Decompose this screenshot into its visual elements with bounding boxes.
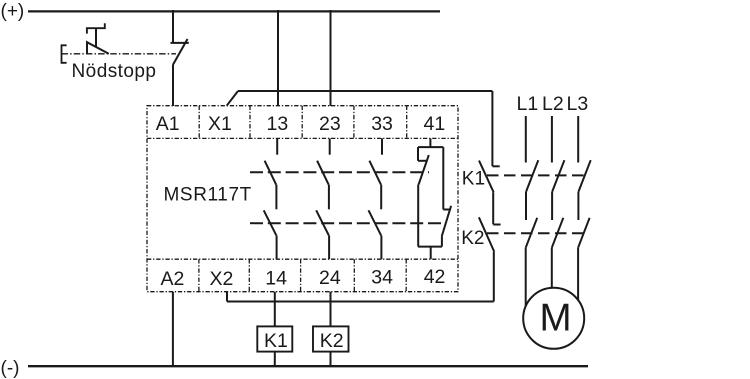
- wire contact to terminal 14: [276, 236, 278, 260]
- svg-text:X1: X1: [208, 113, 232, 135]
- wire between 23-24 contacts: [328, 185, 330, 210]
- wire terminal 14 to coil K1: [274, 292, 276, 327]
- wire between aux contacts: [492, 192, 494, 224]
- relay contact 23-24 lower NO: [316, 210, 329, 235]
- svg-text:L3: L3: [567, 93, 589, 115]
- relay contact 23-24 upper NO: [317, 138, 330, 184]
- wire (-) bottom supply rail: [28, 365, 588, 367]
- svg-text:K1: K1: [264, 330, 288, 352]
- relay contact 33-34 upper NO: [369, 138, 382, 184]
- svg-text:A2: A2: [161, 268, 185, 290]
- mechanical linkage row 2 (dashed): [250, 222, 443, 224]
- NC branch bottom bar: [418, 246, 442, 248]
- wire coil K1 to (-) rail: [274, 352, 276, 367]
- svg-text:(+): (+): [1, 1, 25, 22]
- svg-text:L1: L1: [517, 93, 539, 115]
- wire between 13-14 contacts: [275, 185, 277, 210]
- svg-text:L2: L2: [542, 93, 564, 115]
- terminal strip top row divider: [147, 137, 458, 139]
- contactor K1 main contact L2: [552, 160, 564, 192]
- wire terminal 24 to coil K2: [330, 292, 332, 327]
- relay contact 13-14 lower NO: [264, 210, 277, 235]
- wire feedback loop right vertical upper: [491, 91, 493, 166]
- svg-text:41: 41: [424, 113, 446, 135]
- wire NC lower lever to bottom bar: [441, 236, 443, 246]
- emergency stop actuator bracket: [62, 45, 67, 63]
- contactor K1 auxiliary NC contact: [479, 161, 500, 193]
- svg-text:Nödstopp: Nödstopp: [72, 61, 157, 82]
- svg-text:13: 13: [267, 113, 289, 135]
- wire X1 to feedback loop (diagonal): [227, 91, 238, 106]
- svg-text:33: 33: [371, 113, 393, 135]
- contactor coil K1: [257, 326, 292, 351]
- wire phase L2 to motor: [551, 248, 553, 289]
- wire contact to terminal 24: [328, 236, 330, 260]
- wire terminal A2 to (-) rail: [172, 292, 174, 367]
- contactor K2 main contact L1: [526, 218, 538, 248]
- wire feedback loop right vertical lower: [493, 252, 495, 302]
- svg-text:K2: K2: [320, 330, 344, 352]
- emergency stop NC contact S1: [171, 10, 189, 65]
- svg-text:K1: K1: [462, 168, 485, 189]
- svg-text:14: 14: [265, 268, 287, 290]
- wire (+) top supply rail: [28, 10, 440, 12]
- wire contact to terminal 34: [380, 236, 382, 260]
- wire phase L3 upper: [577, 116, 579, 163]
- wire terminal 41 to NC branch: [429, 138, 431, 147]
- relay contact 33-34 lower NO: [369, 210, 382, 235]
- contactor K1 main contact L3: [578, 160, 590, 192]
- wire from emergency stop contact to A1: [172, 65, 174, 106]
- wire feedback loop top horizontal: [238, 90, 492, 92]
- relay contact 13-14 upper NO: [265, 138, 278, 184]
- wire phase L3 to motor: [577, 248, 579, 301]
- wire phase L3 middle: [577, 192, 579, 220]
- svg-text:42: 42: [424, 266, 446, 288]
- contactor K2 main contact L2: [552, 218, 564, 248]
- contactor K2 main contact L3: [578, 218, 590, 248]
- NC branch top bar: [418, 146, 443, 148]
- svg-text:A1: A1: [156, 113, 180, 135]
- wire phase L2 middle: [551, 192, 553, 220]
- contactor K2 auxiliary NC contact: [479, 217, 501, 251]
- wire coil K2 to (-) rail: [330, 352, 332, 367]
- wire phase L1 to motor: [525, 248, 527, 306]
- svg-text:K2: K2: [461, 228, 484, 249]
- wire between 33-34 contacts: [380, 185, 382, 210]
- wire NC right branch: [442, 147, 444, 209]
- wire phase L1 upper: [525, 116, 527, 163]
- relay NC contact 41-42 upper: [418, 147, 429, 184]
- relay NC contact 41-42 lower: [442, 206, 451, 236]
- wire from (+) rail down to terminal 23: [330, 10, 332, 106]
- wire from (+) rail down to terminal 13: [277, 10, 279, 106]
- wire feedback loop bottom horizontal: [227, 301, 494, 303]
- mechanical linkage K1 row (dashed): [487, 174, 586, 176]
- contactor coil K2: [313, 326, 349, 351]
- svg-text:X2: X2: [210, 268, 234, 290]
- mechanical linkage K2 row (dashed): [487, 232, 586, 234]
- safety relay U1 MSR117T outline (dashed): [147, 106, 458, 292]
- mechanical linkage row 1 (dashed): [250, 171, 429, 173]
- wire NC left branch: [417, 185, 419, 247]
- wire X2 to feedback loop: [226, 292, 228, 302]
- terminal strip bottom row divider: [147, 258, 458, 260]
- svg-text:M: M: [539, 297, 571, 340]
- contactor K1 main contact L1: [526, 160, 538, 192]
- svg-text:23: 23: [319, 113, 341, 135]
- terminal box dividers top row: [199, 106, 407, 139]
- wire phase L2 upper: [551, 116, 553, 163]
- svg-text:(-): (-): [1, 358, 20, 379]
- emergency stop mushroom head symbol: [87, 23, 109, 54]
- wire phase L1 middle: [525, 192, 527, 220]
- motor M1 circle: [523, 288, 584, 349]
- emergency stop actuator link (dash-dot): [62, 53, 177, 55]
- svg-text:34: 34: [371, 266, 393, 288]
- svg-text:MSR117T: MSR117T: [164, 184, 252, 205]
- terminal box dividers bottom row: [199, 259, 406, 292]
- wire NC branch to terminal 42: [430, 247, 432, 260]
- svg-text:24: 24: [319, 267, 341, 289]
